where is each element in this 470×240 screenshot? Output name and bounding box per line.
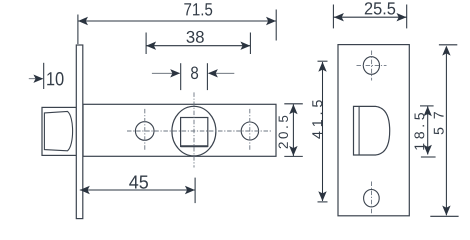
dimension 25.5 arrows — [334, 13, 407, 21]
dimension 57 line — [430, 45, 458, 217]
dimension 57 arrows — [442, 46, 450, 216]
right screw hole circle — [241, 122, 258, 140]
top hole horizontal centerline — [357, 64, 387, 66]
dimension 41.5 arrows — [318, 62, 326, 201]
dimension 38 arrows — [146, 42, 250, 50]
vertical centerline spindle — [193, 92, 195, 167]
latch bolt side view — [42, 107, 77, 155]
bottom hole vertical centerline — [371, 182, 373, 215]
faceplate side bar — [76, 45, 83, 219]
dimension 45 arrows — [80, 186, 195, 194]
spindle square hole — [181, 118, 208, 147]
dimension 57 label — [434, 112, 444, 134]
latch body case — [83, 104, 276, 156]
dimension 10 arrow — [33, 75, 43, 83]
dimension 10 tick — [43, 63, 45, 89]
horizontal centerline — [127, 130, 272, 132]
dimension 20.5 label — [279, 116, 289, 149]
dimension 8 arrows — [170, 69, 218, 77]
dimension 8 ticks — [181, 63, 208, 90]
spindle follower ellipse — [172, 106, 216, 156]
vertical centerline left hole — [144, 109, 146, 152]
dimension 18.5 arrows — [424, 106, 432, 155]
dimension 71.5 line — [78, 10, 276, 45]
bottom screw hole front — [364, 190, 380, 207]
dimension 25.5 label — [365, 2, 395, 14]
dimension 20.5 line — [284, 104, 303, 157]
dimension 38 line — [146, 33, 250, 55]
dimension 38 label — [187, 31, 204, 43]
dimension 45 line — [80, 178, 195, 204]
dimension 10 leader line — [29, 78, 43, 80]
dimension 71.5 label — [184, 3, 212, 15]
strike faceplate front view — [338, 45, 409, 216]
latch bolt front view — [354, 106, 390, 155]
dimension 20.5 arrows — [289, 104, 297, 156]
latch bolt bevel face — [44, 111, 72, 150]
spindle square bottom edge — [181, 145, 208, 147]
dimension 45 label — [129, 176, 148, 189]
left screw hole circle — [135, 122, 154, 141]
top screw hole front — [363, 57, 379, 75]
latch bolt front bevel line — [358, 106, 360, 155]
dimension 8 label — [191, 67, 198, 80]
dimension 41.5 line — [318, 61, 328, 202]
dimension 8 leader lines — [152, 72, 180, 74]
dimension 10 label — [47, 72, 63, 86]
dimension 18.5 line — [420, 106, 436, 157]
dimension 41.5 label — [312, 100, 322, 139]
dimension 25.5 line — [333, 5, 406, 29]
dimension 18.5 label — [414, 113, 424, 150]
vertical centerline right hole — [249, 109, 251, 151]
dimension 71.5 arrows — [78, 17, 276, 25]
top hole vertical centerline — [371, 51, 373, 81]
